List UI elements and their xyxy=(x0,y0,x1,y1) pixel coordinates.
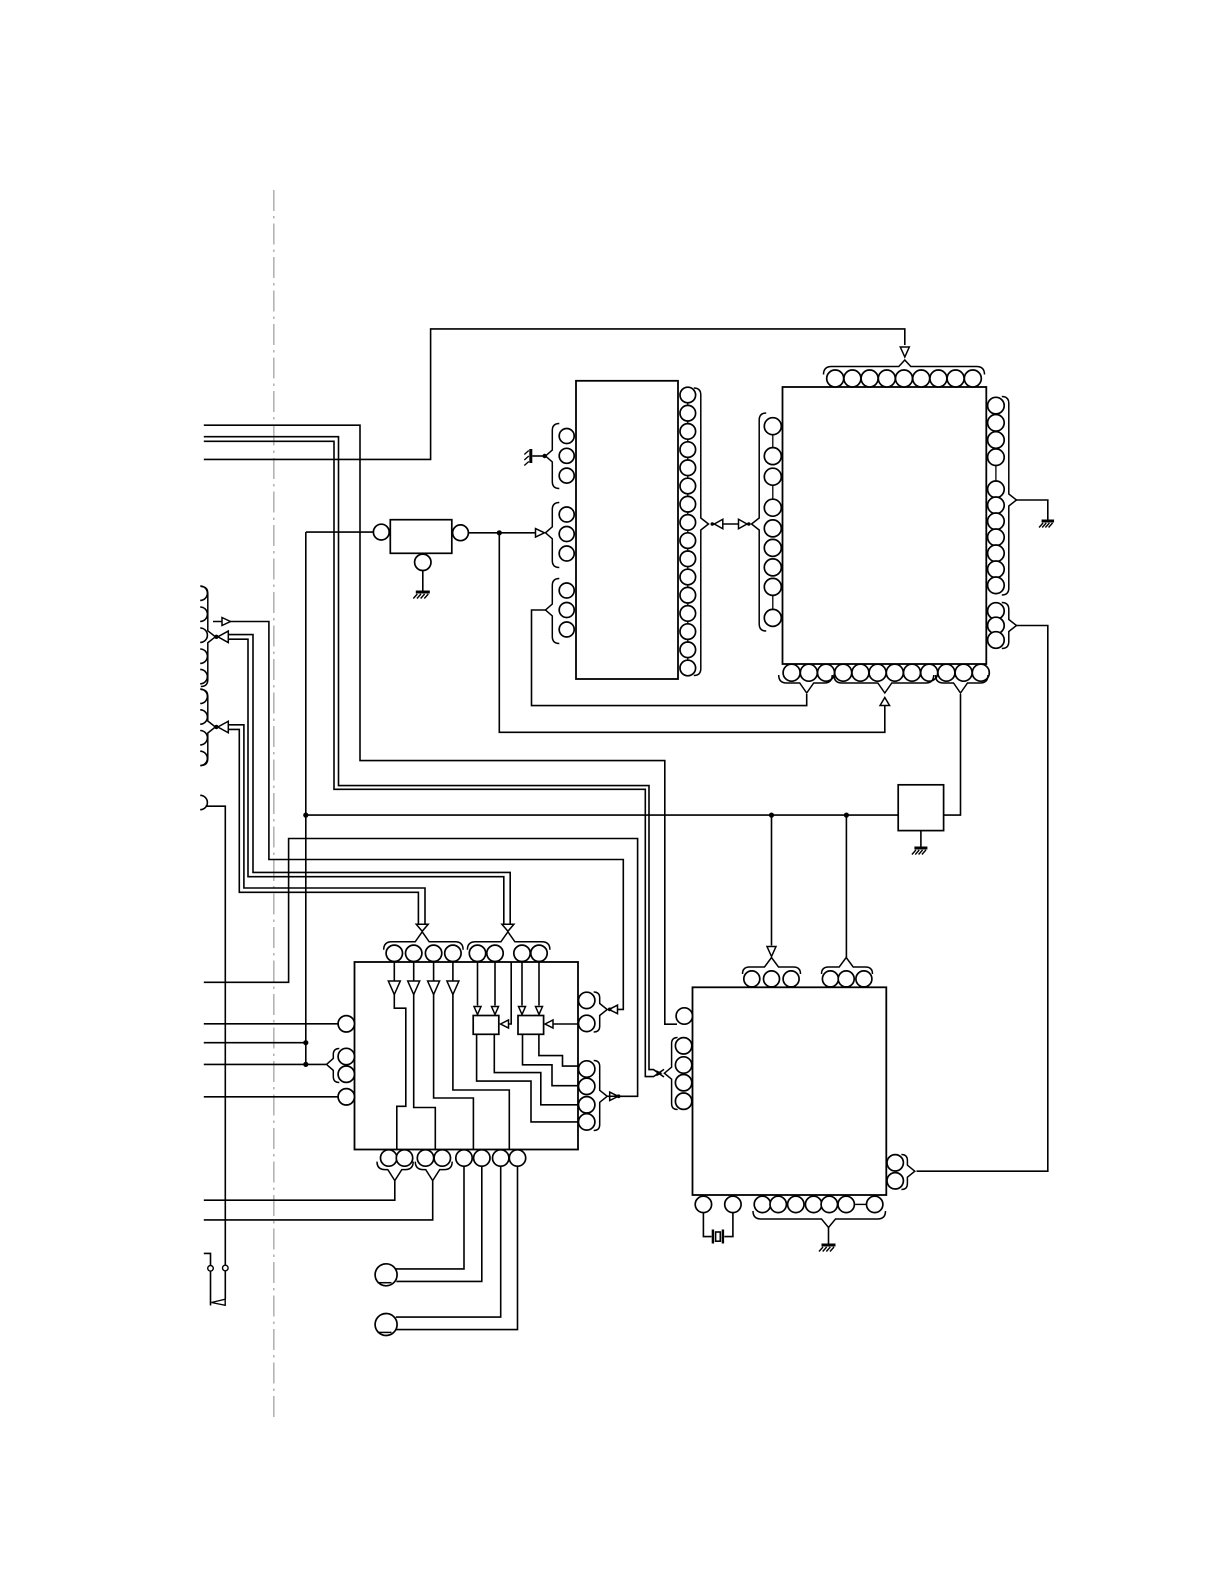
brace CN1 group 1 xyxy=(201,587,216,687)
wire stub to node line xyxy=(204,1042,306,1044)
U2 top pin row xyxy=(827,370,844,387)
U1 left pins group 2 xyxy=(559,507,574,522)
U2 top brace xyxy=(824,360,985,375)
brace CN1 group 2 xyxy=(201,690,216,766)
U4 top pins group 2 xyxy=(822,971,838,987)
U3 left brace (pins 2-3) xyxy=(327,1049,340,1083)
U3 top brace 1 xyxy=(384,932,463,950)
U2 right pin link xyxy=(995,466,997,481)
node dot at 846.4/815 xyxy=(844,813,849,818)
connector CN1 single pin xyxy=(200,795,207,809)
U2 left pin links xyxy=(772,435,774,448)
component R1 box xyxy=(898,785,943,831)
U3 block A input arrow from right xyxy=(508,962,512,1024)
U2 bottom brace 1 xyxy=(779,675,833,693)
U1 left brace 1 xyxy=(546,424,560,489)
arrow out of U3 right group B brace xyxy=(610,1092,619,1101)
arrow CN1-G1 in (wide hollow arrow) xyxy=(218,631,229,643)
U1 right pin links xyxy=(687,403,689,406)
arrow into U3 right group A brace xyxy=(609,1005,618,1014)
wire FL1 node vertical xyxy=(305,532,307,1064)
wire U3 bottom brace 1 out xyxy=(204,1180,395,1200)
arrow into U4 top brace 1 xyxy=(767,947,776,957)
U3 right brace A xyxy=(594,992,608,1032)
U3 right pins group A xyxy=(579,992,595,1008)
arrowhead FL1 out xyxy=(536,529,545,538)
U1 left brace 3 xyxy=(546,579,560,644)
node dot U1 brace1 apex xyxy=(542,454,546,458)
ground at U1 group 1 xyxy=(529,449,532,463)
U3 internal block B xyxy=(518,1016,544,1035)
U4 left pin single xyxy=(676,1008,692,1024)
wire FL1 gnd xyxy=(422,571,424,591)
wire node-815 horizontal xyxy=(306,814,898,816)
wire U3 pin to MIC2 b xyxy=(396,1166,517,1329)
node CN1-G2 junction dot xyxy=(214,725,218,729)
U2 right pin column upper xyxy=(988,397,1005,414)
U4 left pins group xyxy=(675,1038,691,1054)
U4 left brace xyxy=(664,1038,677,1110)
node FL1 out junction xyxy=(497,530,502,535)
wire U4 bottom brace to ground xyxy=(828,1227,830,1244)
wire bus P line 1 (CN1-G1 in a) xyxy=(226,635,510,924)
IC U4 body xyxy=(693,987,887,1195)
arrowhead into U4 left-group brace (bus merge) xyxy=(657,1070,663,1076)
wire to U3 left brace xyxy=(204,1063,326,1065)
U3 block B input arrow from right xyxy=(552,1023,578,1025)
U4 right pins xyxy=(887,1155,903,1171)
U3 block A out 1 xyxy=(477,1034,578,1122)
bidirectional bus arrow U1-U2 xyxy=(714,523,747,525)
U2 bottom pin row xyxy=(783,664,800,681)
wire single pin to SW1 xyxy=(206,806,226,1265)
wire SW1 right leg xyxy=(224,1271,226,1299)
U1 right brace xyxy=(694,388,709,676)
connector CN1 pins group 1 xyxy=(200,586,207,600)
wire U2 lower brace to U4 right brace (long right-side net) xyxy=(917,626,1048,1172)
crystal X1 xyxy=(712,1230,714,1244)
U3 right pins group B xyxy=(579,1061,595,1077)
bus arrow into U3 top brace 2 xyxy=(502,924,514,931)
U1 left pins group 1 xyxy=(559,429,574,444)
wire into FL1 (from node line) xyxy=(306,531,374,533)
node dot 305.8/1064.4 xyxy=(303,1062,308,1067)
U3 top brace 2 xyxy=(467,932,550,950)
IC U2 body xyxy=(783,387,987,664)
wire net-B (left stub to U3 group B) xyxy=(204,839,638,1097)
wire L3 (bus line b to U4 left group) xyxy=(204,441,664,1076)
filter FL1 body xyxy=(390,520,452,554)
U4 top pins group 1 xyxy=(744,971,760,987)
U4 right brace xyxy=(901,1155,914,1190)
fold/crease dash-dot line xyxy=(273,190,275,1421)
U3 internal wire T4 xyxy=(453,995,509,1150)
U3 bottom pin row xyxy=(381,1150,397,1166)
wire R1 right to U2 bottom brace 3 xyxy=(944,694,961,815)
wire SW1 left terminal stub xyxy=(204,1253,211,1265)
U4 bottom brace xyxy=(753,1211,886,1228)
wire SW1 left leg xyxy=(210,1271,212,1305)
U4 top brace 1 xyxy=(743,958,801,975)
wire FL1-node down to U2 bottom brace 2 xyxy=(499,533,885,733)
ground right of U2 xyxy=(1042,520,1055,523)
U3 block B out 1 xyxy=(523,1034,579,1085)
U3 block B out 2 xyxy=(539,1034,578,1066)
wire L2 (bus line a to U4 left group) xyxy=(204,437,664,1077)
IC U3 body xyxy=(355,962,579,1150)
U1 left pins group 3 xyxy=(559,583,574,598)
U3 internal block A xyxy=(473,1016,499,1035)
wire bus Q line 1 (CN1-G2 in a) xyxy=(226,725,425,924)
wire U3 pin to MIC2 a xyxy=(396,1166,501,1317)
U3 wires top pins into blocks A/B xyxy=(477,962,479,1006)
wire U3 bottom brace 2 out xyxy=(204,1180,433,1220)
node dot at 771.5/815 xyxy=(769,813,774,818)
wire bus Q line 2 (CN1-G2 in b) xyxy=(226,729,418,924)
U2 bottom brace 2 xyxy=(834,675,934,693)
U4 bottom pins group xyxy=(754,1196,770,1212)
bus arrow into U3 top brace 1 xyxy=(416,924,428,931)
U3 internal wire T1 xyxy=(394,995,406,1150)
wire L4 (top route to U2 top brace) xyxy=(204,329,905,460)
switch SW1 contact left xyxy=(208,1266,214,1272)
U3 bottom brace 2 xyxy=(415,1162,452,1181)
ground below FL1 xyxy=(416,591,430,594)
ground below R1 xyxy=(914,847,927,850)
U2 left pin column xyxy=(764,418,781,435)
U2 bottom brace 3 xyxy=(936,675,989,693)
U3 top pin row group 2 xyxy=(469,945,485,961)
U1 right pin column xyxy=(680,387,696,403)
U1 left brace 2 xyxy=(546,503,560,568)
arrow into U2 top brace xyxy=(900,347,909,357)
U3 top pin row group 1 xyxy=(386,945,402,961)
U3 left pin 4 xyxy=(338,1089,354,1105)
IC U1 body xyxy=(576,381,678,679)
filter FL1 pin gnd xyxy=(415,554,431,570)
wire L1 (to U4 pin: left stub via top route) xyxy=(204,425,677,1024)
arrow CN1-G2 in (wide hollow arrow) xyxy=(218,721,229,733)
wire ground to U1 brace 1 xyxy=(532,455,544,457)
node dot at 305.8/815 xyxy=(303,813,308,818)
filter FL1 pin left xyxy=(373,524,389,540)
wire down to U4 top brace 1 xyxy=(771,815,773,945)
wire U4 xtal pin 2 xyxy=(724,1213,733,1237)
U2 right pin column lower xyxy=(988,603,1005,620)
wire CN1-G1 out (right arrow line) xyxy=(213,622,623,1010)
wire down to U4 top brace 2 xyxy=(845,815,847,958)
U3 internal input buffers (4 triangles) xyxy=(388,981,400,995)
wire U2 upper brace to ground xyxy=(1017,500,1048,520)
U4 top brace 2 xyxy=(822,958,873,975)
wire bus P line 2 (CN1-G1 in b) xyxy=(226,639,504,924)
wire U1 group 3 to U2 bottom brace 1 xyxy=(532,610,807,706)
microphone MIC1 xyxy=(375,1264,397,1286)
ground below U4 xyxy=(822,1244,836,1247)
wire U3 pin to MIC1 b xyxy=(396,1166,482,1281)
arrow up into U2 bottom brace 2 xyxy=(880,698,890,706)
microphone MIC2 xyxy=(375,1314,397,1336)
U4 bottom pin link xyxy=(855,1203,866,1205)
wire U3 pin to MIC1 a xyxy=(396,1166,464,1269)
U2 right brace upper xyxy=(1002,397,1017,596)
U2 right brace lower xyxy=(1002,603,1017,649)
U3 internal wire T3 xyxy=(434,995,474,1150)
switch SW1 lever xyxy=(211,1299,225,1305)
wire R1 ground stem xyxy=(920,831,922,847)
wire U4 xtal pin 1 xyxy=(703,1213,711,1237)
wire to U3 left pin 1 xyxy=(204,1023,338,1025)
wire FL1 out to U1 xyxy=(468,532,537,534)
U4 bottom pin last xyxy=(867,1196,883,1212)
node CN1-G1 junction dot xyxy=(214,635,218,639)
U3 left pins 2-3 xyxy=(338,1048,354,1064)
wire to U3 left pin 4 xyxy=(204,1096,338,1098)
U2 left brace xyxy=(752,413,767,631)
connector CN1 pins group 2 xyxy=(200,689,207,703)
U3 left pin 1 xyxy=(338,1016,354,1032)
U3 internal wire T2 xyxy=(414,995,436,1150)
U3 bottom brace 1 xyxy=(377,1162,413,1181)
U3 right brace B xyxy=(594,1061,608,1131)
U4 bottom pins xtal xyxy=(695,1196,711,1212)
arrowhead on CN1-G1 out wire xyxy=(222,618,231,626)
switch SW1 contact right xyxy=(223,1265,229,1271)
filter FL1 pin right xyxy=(453,525,469,541)
node dot 305.8/1042.7 xyxy=(303,1040,308,1045)
U3 block A out 2 xyxy=(494,1034,578,1105)
